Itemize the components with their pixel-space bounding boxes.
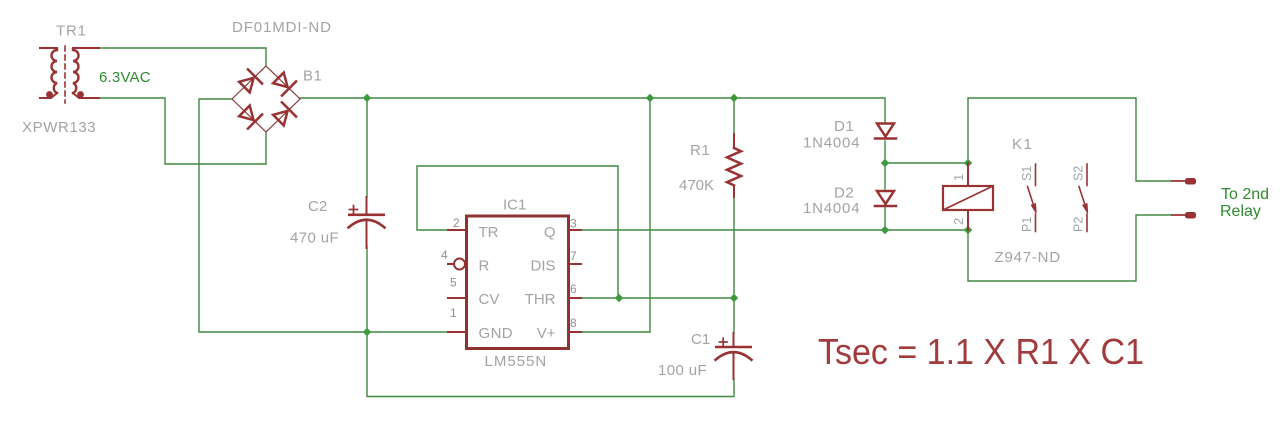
svg-text:R1: R1 xyxy=(690,142,710,159)
exit stub pin lower to 2nd relay xyxy=(1172,212,1196,219)
IC1 pin 3 stub xyxy=(569,229,581,231)
svg-text:5: 5 xyxy=(450,276,457,290)
relay K1 coil xyxy=(943,163,993,230)
IC1 pin 6 stub xyxy=(569,297,581,299)
svg-text:1: 1 xyxy=(450,306,457,320)
svg-text:S1: S1 xyxy=(1020,166,1034,181)
svg-text:7: 7 xyxy=(570,249,577,263)
svg-text:R: R xyxy=(479,258,490,275)
svg-text:4: 4 xyxy=(441,248,448,262)
svg-text:C2: C2 xyxy=(308,198,327,215)
junction dot relay coil pin 2 xyxy=(964,226,972,234)
svg-text:IC1: IC1 xyxy=(503,197,526,214)
svg-text:TR: TR xyxy=(479,224,499,241)
svg-text:Tsec = 1.1 X R1 X C1: Tsec = 1.1 X R1 X C1 xyxy=(818,331,1144,372)
svg-text:S2: S2 xyxy=(1072,166,1086,181)
junction dot TR loop / THR wire xyxy=(615,294,623,302)
IC1 pin 1 stub xyxy=(448,331,465,333)
svg-text:Relay: Relay xyxy=(1220,203,1261,220)
junction dot node V+ rail / C2 xyxy=(363,94,371,102)
relay contact S2 xyxy=(1079,164,1088,232)
junction dot node D1/D2 to relay xyxy=(881,159,889,167)
capacitor C2 xyxy=(348,197,385,248)
bridge diode top-right xyxy=(271,71,296,96)
junction dot node D2 / Q wire xyxy=(881,226,889,234)
svg-text:To 2nd: To 2nd xyxy=(1221,186,1269,203)
svg-text:P2: P2 xyxy=(1072,217,1086,232)
wire: relay bottom loop to second exit xyxy=(968,215,1172,281)
svg-text:P1: P1 xyxy=(1020,217,1034,232)
wire: R1 bottom lead to THR node and C1 xyxy=(733,197,735,333)
bridge diode bottom-right xyxy=(271,102,296,127)
svg-text:2: 2 xyxy=(453,216,460,230)
wire: TR1 secondary bottom to bridge bottom corner xyxy=(99,98,266,164)
svg-text:THR: THR xyxy=(525,291,556,308)
bridge rectifier B1 diamond outline xyxy=(232,66,300,132)
wire: THR pin 6 to R1/C1 node xyxy=(580,297,734,299)
svg-text:Z947-ND: Z947-ND xyxy=(995,249,1061,266)
bridge diode bottom-left xyxy=(237,104,262,129)
op-amp/timer IC1 body xyxy=(467,216,569,349)
junction dot node V+ rail / pin8 riser xyxy=(646,94,654,102)
junction dot node V+ rail / R1 xyxy=(730,94,738,102)
svg-text:CV: CV xyxy=(479,291,500,308)
diode D2 xyxy=(875,191,896,206)
svg-text:DIS: DIS xyxy=(530,258,555,275)
junction dot relay coil pin 1 xyxy=(964,159,972,167)
junction dot C2 bottom / GND wire xyxy=(363,328,371,336)
bridge diode top-left xyxy=(237,69,262,94)
svg-text:DF01MDI-ND: DF01MDI-ND xyxy=(232,19,332,36)
resistor R1 xyxy=(727,134,741,197)
svg-text:V+: V+ xyxy=(537,325,556,342)
IC1 pin 5 stub xyxy=(448,297,465,299)
svg-text:B1: B1 xyxy=(303,68,322,85)
svg-text:K1: K1 xyxy=(1012,136,1033,153)
capacitor C1 xyxy=(715,333,752,379)
IC1 pin 2 stub xyxy=(448,229,465,231)
wire: relay left edge top xyxy=(968,98,1172,181)
wire: C2 bottom to bottom rail to C1 bottom xyxy=(367,246,734,397)
IC1 pin 7 stub xyxy=(569,263,581,265)
svg-text:470K: 470K xyxy=(679,177,714,194)
svg-text:1N4004: 1N4004 xyxy=(803,200,860,217)
diode D1 xyxy=(875,124,896,139)
svg-text:C1: C1 xyxy=(691,331,710,348)
svg-text:D2: D2 xyxy=(834,185,854,202)
svg-text:XPWR133: XPWR133 xyxy=(22,119,96,136)
junction dot THR wire / R1 / C1 xyxy=(730,294,738,302)
wire: V+ rail from bridge right corner to D1 xyxy=(300,98,885,123)
svg-text:3: 3 xyxy=(570,217,577,231)
wire: R1 top lead from rail xyxy=(733,98,735,135)
svg-text:470 uF: 470 uF xyxy=(290,230,339,247)
IC1 pin 4 stub with bubble xyxy=(448,259,465,270)
svg-text:6.3VAC: 6.3VAC xyxy=(99,69,151,86)
wire: Q pin 3 to relay coil pin 2 xyxy=(580,229,968,231)
wire: TR pin 2 loop to THR node xyxy=(417,166,618,298)
svg-text:LM555N: LM555N xyxy=(485,353,548,370)
svg-text:1N4004: 1N4004 xyxy=(803,135,860,152)
IC1 pin 8 stub xyxy=(569,331,581,333)
wire: V+ pin 8 to top rail xyxy=(580,98,650,332)
svg-text:GND: GND xyxy=(479,325,514,342)
svg-text:D1: D1 xyxy=(834,118,854,135)
wire: D2 bottom to Q wire xyxy=(884,207,886,230)
svg-text:Q: Q xyxy=(544,224,556,241)
svg-text:1: 1 xyxy=(951,174,966,181)
transformer TR1 xyxy=(40,46,99,103)
svg-text:8: 8 xyxy=(570,316,577,330)
wire: D1/D2 node to relay coil pin 1 xyxy=(885,162,968,164)
svg-text:6: 6 xyxy=(570,282,577,296)
exit stub pin upper to 2nd relay xyxy=(1172,178,1196,185)
svg-text:TR1: TR1 xyxy=(56,23,87,40)
wire: TR1 secondary top to bridge top corner xyxy=(99,48,266,66)
svg-text:100 uF: 100 uF xyxy=(658,362,707,379)
wire: D1 to D2 link xyxy=(884,141,886,189)
wire: bridge left corner down to GND rail and to IC pin 1 xyxy=(199,99,448,332)
svg-text:2: 2 xyxy=(951,218,966,225)
wire: C2 top lead xyxy=(366,98,368,197)
relay contact S1 xyxy=(1028,164,1037,232)
